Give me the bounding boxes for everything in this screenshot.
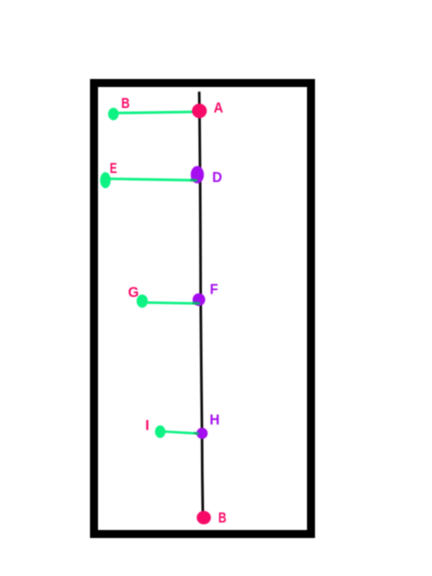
wire tip over node H <box>194 432 199 435</box>
svg-text:G: G <box>128 285 139 301</box>
node E (green dot) <box>100 172 111 188</box>
main vertical line <box>199 92 203 512</box>
svg-text:E: E <box>110 161 118 177</box>
svg-text:B: B <box>121 96 130 112</box>
wire I-H <box>162 431 198 433</box>
wire G-F <box>143 303 200 304</box>
wire tip over node D <box>191 179 198 182</box>
svg-text:D: D <box>212 170 222 186</box>
svg-text:F: F <box>210 282 218 298</box>
wire B-A <box>114 112 199 113</box>
svg-text:A: A <box>214 100 224 116</box>
node D (purple dot) <box>191 166 204 183</box>
node I (green dot) <box>155 425 165 438</box>
node F (purple dot) <box>193 293 206 306</box>
wire E-D <box>106 179 197 181</box>
node A (pink dot) <box>192 104 207 119</box>
svg-text:I: I <box>145 418 149 434</box>
wire tip over node F <box>193 302 201 305</box>
node H (purple dot) <box>197 428 208 439</box>
border frame <box>94 83 311 534</box>
node B top (green dot) <box>108 108 119 120</box>
svg-text:H: H <box>210 412 220 428</box>
node B bottom (pink dot) <box>197 511 211 524</box>
svg-text:B: B <box>218 511 226 527</box>
node G (green dot) <box>137 295 148 308</box>
